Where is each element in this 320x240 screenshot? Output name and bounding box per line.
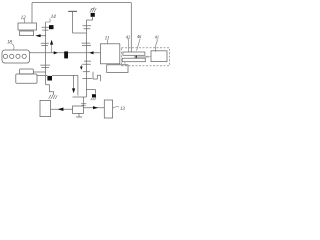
wire step from solenoid to V2 — [86, 17, 92, 20]
wire V1 vertical line — [45, 22, 47, 85]
box pump bottom-left — [40, 100, 51, 116]
arrow left to box 12 — [41, 35, 46, 37]
pump box on bottom bus — [73, 106, 84, 113]
capacitor bars V1 pair 3 — [40, 65, 50, 67]
box 12 upper — [18, 23, 37, 30]
wire mid bus — [30, 52, 101, 54]
wire T stem to V2 — [73, 32, 87, 34]
capacitor bars V1 pair 2 — [41, 43, 49, 45]
svg-text:46: 46 — [137, 34, 142, 39]
capacitor bar V2 single 5 — [82, 77, 92, 79]
ground black box — [92, 94, 96, 97]
tank hatching above left box — [49, 95, 58, 99]
cell box lower in controller — [122, 58, 145, 62]
svg-text:11: 11 — [105, 37, 109, 42]
leader for label 42 — [128, 39, 129, 52]
wire stack large box to black box — [37, 75, 47, 77]
hook wire under box 11 — [93, 72, 101, 82]
capacitor bars V2 pair 3 — [82, 61, 91, 64]
wire horizontal connect low — [73, 96, 87, 98]
box lower wide — [107, 65, 128, 73]
wire drop with down arrow — [73, 75, 75, 89]
svg-text:42: 42 — [126, 34, 130, 39]
black block on mid bus — [64, 51, 68, 58]
arrow left on mid bus — [89, 51, 93, 54]
leader for label 46 — [137, 38, 141, 50]
solenoid black box on V1 top — [49, 25, 54, 29]
leader for label 13 — [113, 107, 120, 109]
solenoid black box V2 top — [91, 13, 95, 17]
wire V2 branch to ground — [86, 90, 95, 94]
pump stack large box — [16, 74, 37, 83]
wire top bus right drop to controller — [130, 3, 132, 53]
wire T stem — [72, 11, 74, 33]
svg-text:41: 41 — [155, 34, 159, 39]
capacitor bar V2 single 4 — [83, 71, 90, 73]
label 17 hatch above solenoid — [90, 8, 96, 13]
svg-text:18: 18 — [7, 40, 12, 45]
leader for label 41 — [156, 39, 158, 52]
tick inside cell box — [134, 56, 149, 58]
pin circle 1 — [3, 54, 7, 58]
svg-text:12: 12 — [21, 16, 26, 21]
leader step for label 14 — [46, 19, 50, 23]
arrow down stem beside V2 — [80, 65, 82, 67]
arrow down on V2 — [80, 67, 83, 71]
box 13 — [104, 100, 112, 118]
leader for label 18 — [12, 44, 15, 50]
arrow left on bottom bus — [58, 108, 64, 112]
leader for label 12 — [24, 19, 25, 23]
ground hatching — [91, 98, 96, 101]
connector block with 4 pins — [2, 50, 30, 63]
arrow right on mid bus — [54, 51, 58, 54]
ground bar under pump box — [76, 116, 82, 118]
wire drop second — [77, 75, 79, 95]
svg-text:13: 13 — [120, 107, 125, 112]
capacitor bars V2 pair 1 — [83, 26, 92, 29]
pin circle 4 — [22, 54, 26, 58]
pin circle 2 — [10, 54, 14, 58]
pump stack small box — [20, 69, 34, 74]
arrow right on bottom bus — [93, 106, 98, 109]
wire bottom bus left — [51, 108, 73, 110]
dashed controller outline — [122, 48, 170, 66]
solenoid black box on V1 lower — [47, 76, 52, 81]
leader for label 11 — [106, 40, 108, 44]
wire from black box to right manifold — [52, 74, 78, 76]
svg-text:14: 14 — [51, 15, 57, 20]
pin circle 3 — [16, 54, 20, 58]
T symbol top — [68, 10, 77, 12]
box 11 main — [101, 44, 120, 64]
box 41 in controller — [151, 51, 167, 62]
wire top bus — [32, 2, 131, 4]
wire V1 to tank step — [46, 85, 54, 95]
box 12 lower — [20, 31, 34, 36]
capacitor bars V1 pair 1 — [42, 27, 50, 30]
wire bottom bus right — [84, 107, 105, 109]
ground stem under pump box — [78, 113, 80, 116]
wire top bus left drop to box 12 — [31, 3, 33, 23]
arrow up beside V1 — [51, 45, 53, 53]
wire stack small box to V1 — [33, 71, 45, 73]
capacitor bars V2 pair 2 — [82, 43, 92, 46]
cell box upper in controller — [123, 52, 145, 55]
wire drop to pump box — [82, 97, 84, 106]
wire V2 vertical line — [85, 20, 87, 97]
capacitor ticks above pump box — [81, 104, 86, 106]
